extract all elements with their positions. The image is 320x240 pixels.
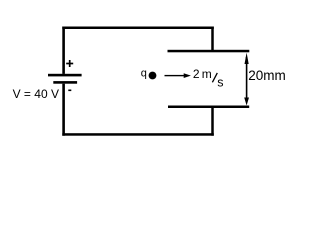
velocity arrow (165, 73, 191, 78)
svg-text:q: q (141, 68, 147, 80)
capacitor plate bottom (168, 106, 249, 109)
battery minus label (68, 90, 71, 92)
wire top (62, 27, 214, 30)
wire right bottom stub (211, 107, 214, 136)
svg-text:V = 40 V: V = 40 V (13, 87, 59, 101)
label 2 m/s (193, 67, 224, 90)
capacitor plate top (168, 50, 250, 53)
dimension arrow 20mm (244, 53, 249, 106)
svg-text:20mm: 20mm (248, 68, 286, 83)
svg-text:2: 2 (193, 67, 200, 81)
wire bottom (62, 133, 214, 136)
svg-text:m: m (202, 67, 212, 81)
wire left lower (62, 84, 65, 136)
charge dot (149, 72, 157, 80)
svg-text:s: s (217, 75, 223, 89)
wire right top stub (211, 27, 214, 52)
wire left upper (62, 27, 65, 74)
battery V1 (48, 74, 82, 84)
battery plus label (66, 60, 73, 67)
